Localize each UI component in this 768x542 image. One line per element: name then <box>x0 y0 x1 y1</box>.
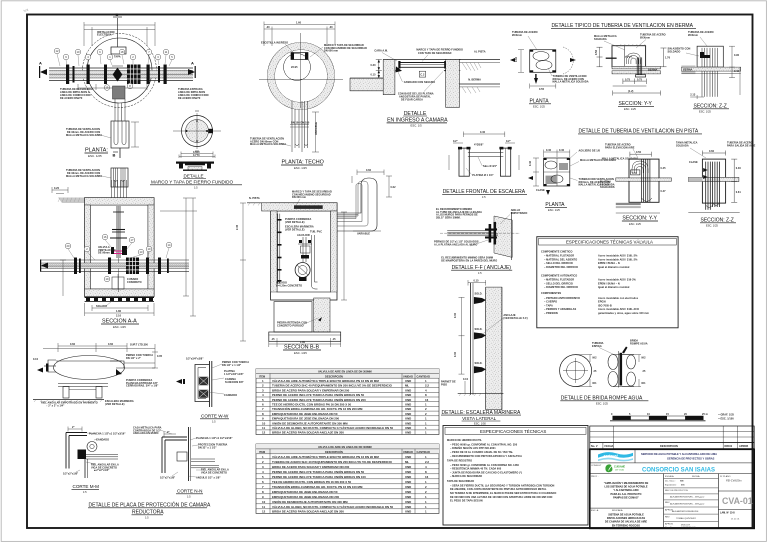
svg-text:– CUERPO: – CUERPO <box>544 301 557 304</box>
svg-text:MALLA METALICA SOLDADA: MALLA METALICA SOLDADA <box>602 158 638 161</box>
svg-text:UND: UND <box>405 426 411 430</box>
opening circle <box>284 54 311 81</box>
svg-text:VALVULA DE AIRE EN LINEA DE DN: VALVULA DE AIRE EN LINEA DE DN 300MM <box>318 371 372 374</box>
left dim <box>518 50 524 73</box>
left leader note <box>250 138 286 147</box>
ventilation pipes below roof <box>292 101 308 152</box>
sedapal band <box>590 462 754 464</box>
svg-text:N/1: N/1 <box>642 382 647 385</box>
svg-text:GERENCIA DE PROYECTOS Y OB: GERENCIA DE PROYECTOS Y OBRAS <box>667 457 715 461</box>
bottom pit <box>314 298 330 332</box>
svg-text:ESC. 1/5: ESC. 1/5 <box>411 124 423 128</box>
svg-text:VIGA DE CONCRETO: VIGA DE CONCRETO <box>201 471 227 474</box>
ladder rail <box>470 283 472 395</box>
svg-text:MALLA METALICA SOLDADA: MALLA METALICA SOLDADA <box>66 175 102 178</box>
svg-text:DN 1/2" x 1 1/2": DN 1/2" x 1 1/2" <box>222 364 242 367</box>
svg-text:Y ALCANTARILLADO: Y ALCANTARILLADO <box>613 489 638 492</box>
ventilation pipes below chamber <box>115 99 125 121</box>
svg-text:0.45: 0.45 <box>661 167 667 170</box>
svg-text:– SELLO DEL ORIFICIO: – SELLO DEL ORIFICIO <box>544 282 573 285</box>
svg-text:0.15: 0.15 <box>371 74 377 77</box>
leaders <box>605 144 635 150</box>
svg-text:12: 12 <box>262 510 266 514</box>
svg-text:CANDADO: CANDADO <box>224 394 237 397</box>
servicio text <box>641 452 717 461</box>
especificaciones tecnicas valvula box <box>537 237 678 328</box>
svg-text:DE VIDA: DE VIDA <box>615 469 624 472</box>
berma PLANTA square <box>510 31 589 108</box>
svg-text:ESCALA: ESCALA <box>665 475 674 478</box>
right column <box>718 490 754 492</box>
svg-text:CORTE M-M: CORTE M-M <box>73 484 100 489</box>
vertical pipes <box>706 162 720 210</box>
consorcio green logo <box>605 464 625 472</box>
svg-text:TAPA: TAPA <box>114 56 121 59</box>
ventilation box 2 (front view) <box>111 168 128 187</box>
roof opening cover <box>294 205 323 209</box>
lock detail black square <box>209 129 214 133</box>
cover (tapa) double lines <box>400 62 446 64</box>
bottom floor <box>458 392 504 394</box>
marco cross-section <box>176 162 214 171</box>
svg-text:2.13: 2.13 <box>690 94 696 97</box>
pipe <box>447 231 498 236</box>
svg-text:Acero inoxidable AISI / 316L-2: Acero inoxidable AISI / 316L-2CO <box>598 308 639 311</box>
right pipe <box>312 235 318 289</box>
svg-text:EMPOTRADO: EMPOTRADO <box>511 212 528 215</box>
svg-text:0.46: 0.46 <box>736 167 742 170</box>
svg-text:EN TERRENO ROCOSO: EN TERRENO ROCOSO <box>612 524 640 527</box>
valve ball <box>295 263 310 278</box>
svg-text:DE CAMARA DE VALVULA DE AIRE: DE CAMARA DE VALVULA DE AIRE <box>605 521 647 524</box>
svg-text:– PERNOS Y ARANDELAS: – PERNOS Y ARANDELAS <box>544 308 576 311</box>
svg-text:ESC. 1/50: ESC. 1/50 <box>474 422 486 426</box>
svg-text:REV.: REV. <box>665 517 670 519</box>
title: detalle tuberia ventilacion en pista <box>578 129 702 135</box>
dim right of vent box <box>131 122 139 147</box>
side dims <box>449 143 519 170</box>
svg-text:BRIDA DE ACERO PARA SOLDAR Y E: BRIDA DE ACERO PARA SOLDAR Y EMPERNAR DN… <box>272 388 350 392</box>
svg-text:VISTA LATERAL: VISTA LATERAL <box>462 416 496 421</box>
svg-text:0.60: 0.60 <box>70 343 76 346</box>
svg-text:1/2": 1/2" <box>453 140 459 143</box>
section arrow A right <box>188 66 196 78</box>
svg-text:UNIÓN DE DESMONTAJE AUTOPORTAN: UNIÓN DE DESMONTAJE AUTOPORTANTE DN 300 … <box>272 420 348 425</box>
sedapal logo <box>598 452 633 461</box>
concrete anchor gray square <box>113 86 126 99</box>
svg-text:1/2"x2"x1/8": 1/2"x2"x1/8" <box>160 477 176 480</box>
pipe horizontal band <box>49 68 193 81</box>
svg-text:0.40: 0.40 <box>559 149 565 152</box>
svg-text:UND: UND <box>405 490 411 494</box>
svg-text:– MATERIAL FLOTADOR: – MATERIAL FLOTADOR <box>544 255 574 258</box>
svg-text:H=0.20m CONCRETO: H=0.20m CONCRETO <box>276 284 302 287</box>
svg-text:DE MAMPOSTERIA EN LA PARED DEL: DE MAMPOSTERIA EN LA PARED DEL MURO <box>441 259 497 262</box>
svg-text:UNIÓN DE DESMONTAJE AUTOPORTAN: UNIÓN DE DESMONTAJE AUTOPORTANTE DN 300 … <box>272 499 348 504</box>
svg-text:10: 10 <box>262 421 266 425</box>
svg-text:01 de 01: 01 de 01 <box>731 519 740 521</box>
slope hatch below pista line <box>462 63 481 94</box>
svg-text:VALVULA DE AIRE EN LINEA DE DN: VALVULA DE AIRE EN LINEA DE DN 300MM <box>318 446 372 449</box>
svg-text:UND: UND <box>405 480 411 484</box>
svg-text:1:5: 1:5 <box>194 186 198 190</box>
leader notes <box>512 31 538 37</box>
svg-text:(VER DETALLE): (VER DETALLE) <box>105 403 125 406</box>
svg-text:.20: .20 <box>266 26 270 29</box>
svg-text:N/2: N/2 <box>593 357 598 360</box>
svg-text:MALLA METALICA SOLDADA: MALLA METALICA SOLDADA <box>66 134 102 137</box>
svg-text:SISTEMA DE AGUA POTABLE: SISTEMA DE AGUA POTABLE <box>608 514 644 517</box>
svg-text:DETALLE F-F ( ANCLAJE): DETALLE F-F ( ANCLAJE) <box>452 265 512 271</box>
svg-text:Acero inoxidable AISI / 316L-2: Acero inoxidable AISI / 316L-2% <box>598 258 638 261</box>
leader right <box>503 314 527 320</box>
svg-text:DE ACERO DN270: DE ACERO DN270 <box>60 97 83 100</box>
svg-text:BRIDA DE ACERO PARA SOLDAR-ANC: BRIDA DE ACERO PARA SOLDAR-ANCLAJE DN 20… <box>272 510 344 514</box>
air valve diamond at center <box>113 68 123 82</box>
svg-text:ESC. 1/25: ESC. 1/25 <box>629 222 641 226</box>
road band <box>688 177 739 181</box>
svg-text:– MATERIAL DEL ASIENTO: – MATERIAL DEL ASIENTO <box>544 258 577 261</box>
flange bars on pipe <box>66 65 167 85</box>
svg-text:DN 32" x 1 1/2": DN 32" x 1 1/2" <box>198 446 217 449</box>
PLANTA TECHO roof plan <box>250 22 367 170</box>
center cross lines <box>259 78 343 80</box>
svg-text:– DIAMETRO DEL ORIFICIO: – DIAMETRO DEL ORIFICIO <box>544 266 578 269</box>
svg-text:UND: UND <box>405 475 411 479</box>
svg-text:COMPONENTE CINETICO: COMPONENTE CINETICO <box>541 250 573 253</box>
svg-text:1.60: 1.60 <box>296 22 302 25</box>
svg-text:SUJECION 3/8": SUJECION 3/8" <box>225 381 245 384</box>
svg-text:EPDM / BUNA – N: EPDM / BUNA – N <box>598 282 620 285</box>
svg-text:ITEM: ITEM <box>259 375 265 378</box>
svg-text:DN 1/2" x 2": DN 1/2" x 2" <box>126 357 142 360</box>
svg-text:26.95: 26.95 <box>291 66 298 69</box>
leaders <box>676 142 698 148</box>
svg-text:ESC. A:: ESC. A: <box>591 509 599 512</box>
top dim of vent <box>357 170 384 176</box>
dashed arc right <box>563 47 573 74</box>
consorcio row <box>590 473 754 475</box>
svg-text:SOLDADA: SOLDADA <box>594 38 607 41</box>
svg-text:EMPAQUETADURA DE JEBE ENLONADA: EMPAQUETADURA DE JEBE ENLONADA DN 50 <box>272 490 338 494</box>
svg-text:CVA-01: CVA-01 <box>722 496 753 506</box>
right step + latch <box>110 361 155 368</box>
vent note 2 <box>66 169 102 178</box>
svg-text:11: 11 <box>262 505 265 509</box>
svg-text:DE 600 MM CON UNA ALTURA DE 10: DE 600 MM CON UNA ALTURA DE 100 MM CON A… <box>450 496 552 499</box>
svg-text:– DIAMETRO DEL ORIFICIO: – DIAMETRO DEL ORIFICIO <box>544 286 578 289</box>
svg-text:CONCRETO: CONCRETO <box>127 281 142 284</box>
left lower ground block <box>350 78 383 91</box>
main block outer <box>590 449 754 528</box>
SECCION B-B chamber section with vent pipe <box>236 169 396 355</box>
front circle view <box>560 355 592 387</box>
svg-text:SECCION B-B: SECCION B-B <box>284 345 319 351</box>
svg-text:■ 2"x2"x1/4": ■ 2"x2"x1/4" <box>94 469 110 472</box>
svg-text:CANTIDAD: CANTIDAD <box>417 451 431 454</box>
svg-text:UND: UND <box>405 455 411 459</box>
svg-text:PROY :: PROY : <box>591 476 599 478</box>
bottom arrows <box>534 74 538 84</box>
svg-text:10: 10 <box>262 500 266 504</box>
svg-text:ESPECIFICACIONES TÉCNICAS VÁLV: ESPECIFICACIONES TÉCNICAS VÁLVULA <box>566 240 653 245</box>
svg-text:⌐ 2" x 2" x 1/4": ⌐ 2" x 2" x 1/4" <box>46 404 65 407</box>
svg-text:ALEJANDROGONZALVES: ALEJANDROGONZALVES <box>671 510 699 513</box>
flange plate black <box>620 353 623 386</box>
svg-text:DE ACERO DN270: DE ACERO DN270 <box>178 97 201 100</box>
graphic scale bar <box>610 413 735 421</box>
dim ticks around left circle <box>576 355 592 387</box>
svg-text:TUB. PVC: TUB. PVC <box>310 231 322 234</box>
pedestal <box>636 75 646 77</box>
svg-text:DETALLE: DETALLE <box>184 174 204 179</box>
notes top <box>436 208 482 219</box>
svg-text:0.61: 0.61 <box>736 191 742 194</box>
svg-text:PLANTA: TECHO: PLANTA: TECHO <box>282 160 324 166</box>
svg-text:0.42: 0.42 <box>734 70 740 73</box>
dims right <box>690 46 740 99</box>
air valve assembly <box>298 237 312 262</box>
svg-text:PERNO DE ACERO INCLUYE TUERCA: PERNO DE ACERO INCLUYE TUERCA PARA UNIÓN… <box>272 469 365 474</box>
svg-text:PARA SALIDA DE AIRE: PARA SALIDA DE AIRE <box>727 144 756 147</box>
svg-text:CLASE: CLASE <box>689 161 698 164</box>
svg-text:ESC. 1/25: ESC. 1/25 <box>706 223 718 227</box>
svg-text:SOLADO: SOLADO <box>96 305 107 308</box>
svg-text:UND: UND <box>405 379 411 383</box>
svg-text:ESC. 1/25: ESC. 1/25 <box>533 104 545 108</box>
pista SECCION Y-Y <box>600 144 671 227</box>
ground line <box>33 399 104 401</box>
lower dim under pipe <box>78 84 147 90</box>
svg-text:SECCION A-A: SECCION A-A <box>102 319 137 325</box>
svg-text:1:5: 1:5 <box>145 516 149 520</box>
svg-text:VARIABLE: VARIABLE <box>357 233 370 236</box>
svg-text:Tubo Ø 3/4": Tubo Ø 3/4" <box>483 165 498 168</box>
svg-text:LOS SISTEMAS DE AGUA POTABLE: LOS SISTEMAS DE AGUA POTABLE <box>604 486 647 489</box>
svg-text:TAPA DE SEGURIDAD: TAPA DE SEGURIDAD <box>447 480 474 483</box>
road band <box>616 178 672 181</box>
svg-text:No. V: No. V <box>591 445 598 448</box>
svg-text:PLANCHA 1 1/2"x1 1/2"x3/16": PLANCHA 1 1/2"x1 1/2"x3/16" <box>89 433 126 436</box>
leader notes right <box>126 354 153 360</box>
svg-text:ØXXmm: ØXXmm <box>512 34 523 37</box>
svg-text:– MARCA DE SEGURIDAD: – MARCA DE SEGURIDAD <box>450 475 482 478</box>
svg-text:TOMAS QUINTERO: TOMAS QUINTERO <box>676 517 696 520</box>
svg-text:1:5: 1:5 <box>478 271 482 275</box>
svg-text:ESC. 1/25: ESC. 1/25 <box>88 154 102 158</box>
item balloons <box>54 48 175 90</box>
svg-text:(VER DETALLE F-F): (VER DETALLE F-F) <box>503 317 527 320</box>
svg-text:.15: .15 <box>332 338 336 341</box>
road band with gray left wedge <box>681 65 695 74</box>
svg-text:0.30: 0.30 <box>454 351 457 357</box>
svg-text:FECHA: FECHA <box>605 445 614 448</box>
svg-text:0.47: 0.47 <box>661 190 667 193</box>
svg-text:– SERA DE FIERRO DUCTIL (LA S: – SERA DE FIERRO DUCTIL (LA SEGURIDAD Y … <box>450 484 554 487</box>
svg-text:0.62: 0.62 <box>391 186 397 189</box>
svg-text:UND: UND <box>405 465 411 469</box>
gate valve grid symbol <box>127 65 141 85</box>
left vertical dim <box>60 260 66 296</box>
svg-text:PARA EL A.H. PROYECTO: PARA EL A.H. PROYECTO <box>611 493 642 496</box>
lower area columns <box>663 474 665 529</box>
svg-text:– MATERIAL FLOTADOR: – MATERIAL FLOTADOR <box>544 279 574 282</box>
cover end posts <box>396 61 451 72</box>
svg-text:0.60: 0.60 <box>366 169 372 172</box>
svg-text:ESC. 1/25: ESC. 1/25 <box>548 208 560 212</box>
svg-text:UND: UND <box>405 412 411 416</box>
leader notes <box>592 342 604 348</box>
svg-text:Igual al diámetro nominal: Igual al diámetro nominal <box>598 286 630 289</box>
svg-text:AGUJERO DE 1/8: AGUJERO DE 1/8 <box>579 150 601 153</box>
svg-text:CANDADO: CANDADO <box>96 439 109 442</box>
svg-text:SOLD.: SOLD. <box>475 362 483 365</box>
svg-text:– RESISTENCIA MINIMA 40 TN. C: – RESISTENCIA MINIMA 40 TN. CADA 600 <box>450 468 502 471</box>
SECCION A-A chamber section <box>40 180 197 329</box>
svg-text:ELECTRICA: ELECTRICA <box>97 34 112 37</box>
pista PLANTA square <box>528 149 616 212</box>
svg-text:2.45: 2.45 <box>236 224 239 230</box>
svg-text:PERNO DE ACERO INCLUYE TUERCA: PERNO DE ACERO INCLUYE TUERCA PARA UNIÓN… <box>272 397 366 402</box>
svg-text:UND: UND <box>405 470 411 474</box>
svg-text:UND: UND <box>405 421 411 425</box>
svg-text:0.10: 0.10 <box>33 358 39 361</box>
svg-text:ESC. 1/25: ESC. 1/25 <box>624 107 636 111</box>
svg-text:ESC. 1/25: ESC. 1/25 <box>699 109 711 113</box>
svg-text:0.30: 0.30 <box>454 312 457 318</box>
svg-text:ITEM: ITEM <box>259 451 265 454</box>
svg-text:SOLD.: SOLD. <box>475 293 483 296</box>
pipes going down <box>642 159 650 202</box>
svg-text:ANGULO 1/2" x 1/8": ANGULO 1/2" x 1/8" <box>196 477 221 480</box>
channels <box>459 148 511 176</box>
DETALLE FRONTAL DE ESCALERA <box>442 131 527 199</box>
svg-text:UND: UND <box>405 510 411 514</box>
svg-text:SOLDADOS: SOLDADOS <box>600 186 615 189</box>
svg-text:REV. DE PROYECTOS: REV. DE PROYECTOS <box>665 490 688 492</box>
svg-text:CANTIDAD: CANTIDAD <box>417 375 431 378</box>
svg-text:ESC. 1/25: ESC. 1/25 <box>294 166 307 170</box>
svg-text:LAM. N° 15-8: LAM. N° 15-8 <box>720 512 735 515</box>
svg-text:DE AMARRE, CON JUNTA RESISTENT: DE AMARRE, CON JUNTA RESISTENTE DE PINTU… <box>450 488 547 491</box>
svg-text:UNIDAD: UNIDAD <box>403 375 413 378</box>
svg-text:0.90: 0.90 <box>734 54 740 57</box>
node B marker top <box>113 17 122 47</box>
svg-text:APROB.: APROB. <box>665 523 674 526</box>
leaders <box>579 150 601 153</box>
svg-text:UND: UND <box>405 393 411 397</box>
svg-text:BERMA: BERMA <box>683 69 693 72</box>
svg-text:1.76: 1.76 <box>665 57 671 60</box>
ventilation box with U pipes <box>111 121 129 148</box>
svg-text:DN 600 mm: DN 600 mm <box>324 50 339 53</box>
top slab outline <box>383 59 460 61</box>
air valve assembly <box>110 206 127 292</box>
ladder <box>278 214 280 284</box>
svg-text:16: 16 <box>425 475 429 479</box>
svg-text:0.60: 0.60 <box>108 343 114 346</box>
svg-text:0.05: 0.05 <box>157 355 163 358</box>
section arrow A left <box>39 66 47 78</box>
svg-text:CLASE: CLASE <box>536 189 545 192</box>
grid valve in section <box>126 258 139 275</box>
rung anchors <box>474 297 486 373</box>
svg-text:EMPAQUETADURA DE JEBE ENLONADA: EMPAQUETADURA DE JEBE ENLONADA DN 200 <box>272 495 340 499</box>
svg-text:1/2": 1/2" <box>506 140 512 143</box>
DETALLE ESCALERA MARINERA <box>441 280 528 426</box>
svg-text:12: 12 <box>262 431 266 435</box>
svg-text:UND: UND <box>405 485 411 489</box>
left wall column <box>383 60 395 95</box>
svg-text:TEE DE HIERRO DUCTIL CON BRIDA: TEE DE HIERRO DUCTIL CON BRIDAS PN 16 DN… <box>272 480 352 484</box>
revision table <box>590 426 754 443</box>
svg-text:4"Ø3/8": 4"Ø3/8" <box>474 144 484 147</box>
svg-text:ISO 7005-B: ISO 7005-B <box>598 304 612 307</box>
concrete wall column <box>486 287 502 410</box>
right leader note <box>178 88 209 100</box>
ground line left <box>247 202 271 204</box>
svg-text:2.10: 2.10 <box>116 315 122 318</box>
svg-text:N/1: N/1 <box>593 382 598 385</box>
svg-text:0.50: 0.50 <box>636 151 642 154</box>
materials table 1: valvula de aire en linea DN 300 <box>256 369 439 435</box>
leaders <box>688 31 714 37</box>
svg-text:– PRESION: – PRESION <box>544 312 558 315</box>
svg-text:0.60: 0.60 <box>515 56 518 62</box>
svg-text:N. PISTA: N. PISTA <box>249 197 260 200</box>
svg-text:– DISEÑO SEGÚN LOS NTP ISO-90: – DISEÑO SEGÚN LOS NTP ISO-9001 <box>450 447 496 450</box>
svg-text:DE 90mm: DE 90mm <box>98 252 110 255</box>
svg-text:0.55: 0.55 <box>539 88 545 91</box>
svg-text:PERNO DE ACERO INCLUYE TUERCA: PERNO DE ACERO INCLUYE TUERCA PARA UNIÓN… <box>272 392 365 397</box>
top dim line <box>43 343 155 352</box>
cover ellipse <box>54 356 125 380</box>
svg-text:CONSULT: CONSULT <box>591 465 602 467</box>
svg-text:EMPAQUETADURA DE JEBE ENLONADA: EMPAQUETADURA DE JEBE ENLONADA DN 200 <box>272 417 340 421</box>
placa proteccion title <box>88 502 211 520</box>
vent note 1 <box>66 128 102 137</box>
svg-text:PARA ELEVACION AIRE: PARA ELEVACION AIRE <box>605 146 635 149</box>
svg-text:16: 16 <box>425 398 429 402</box>
A arrow left <box>40 260 48 272</box>
svg-text:EPOXI: EPOXI <box>598 301 606 304</box>
svg-text:CONCRETO POROSO: CONCRETO POROSO <box>277 324 304 327</box>
svg-text:EMPAQUETADURA DE JEBE ENLONADA: EMPAQUETADURA DE JEBE ENLONADA DN 50 <box>272 412 338 416</box>
svg-text:BRIDA DE ACERO PARA SOLDAR-ANC: BRIDA DE ACERO PARA SOLDAR-ANCLAJE DN 20… <box>272 431 344 435</box>
svg-text:Expediente :: Expediente : <box>665 484 678 487</box>
svg-text:SUP.T LTD.300: SUP.T LTD.300 <box>130 344 148 347</box>
title block <box>590 426 754 529</box>
svg-text:= GRAF. 1/25: = GRAF. 1/25 <box>718 414 734 417</box>
svg-text:ROMPE AGUA: ROMPE AGUA <box>630 342 648 345</box>
vent pipe S-bend top right <box>330 176 377 231</box>
DETALLE DE BRIDA ROMPE AGUA <box>560 340 649 406</box>
svg-text:ANCLADA EN MURO: ANCLADA EN MURO <box>133 432 159 435</box>
svg-text:– PESO 60/90 gr. CONFORME AL: – PESO 60/90 gr. CONFORME AL CON NTP/AL … <box>450 443 518 446</box>
left dim <box>240 203 246 341</box>
anchor flanges <box>485 222 497 245</box>
svg-text:UND: UND <box>405 505 411 509</box>
svg-text:– PESO 60/90 gr. CONFORME AL: – PESO 60/90 gr. CONFORME AL CON NORMA N… <box>450 464 519 467</box>
svg-text:MARCO Y TAPA DE FIERRO FUNDIDO: MARCO Y TAPA DE FIERRO FUNDIDO <box>151 180 233 185</box>
svg-text:0.40: 0.40 <box>480 131 486 134</box>
DETALLE marco y tapa de fierro fundido <box>150 111 242 190</box>
svg-text:GERENTE GG: GERENTE GG <box>681 527 696 529</box>
svg-text:1/2"x2"x1/8": 1/2"x2"x1/8" <box>63 473 79 476</box>
svg-text:Dis. Seco :: Dis. Seco : <box>665 481 676 483</box>
svg-text:UND: UND <box>405 403 411 407</box>
svg-text:0.75: 0.75 <box>625 78 631 81</box>
